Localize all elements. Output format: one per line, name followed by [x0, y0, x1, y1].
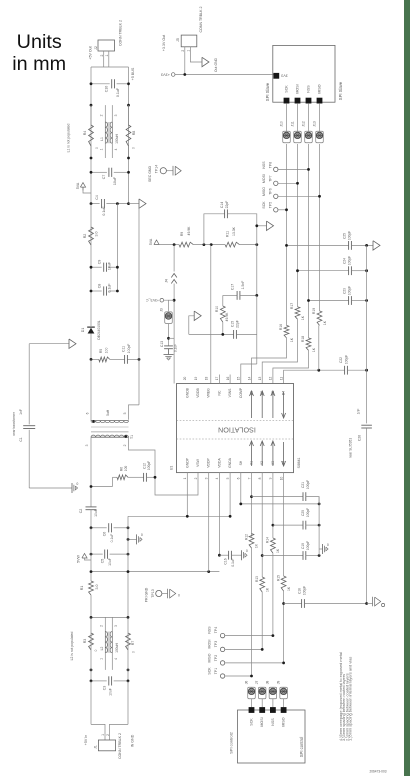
resistor R8 [128, 105, 130, 125]
svg-text:100pF: 100pF [127, 344, 131, 354]
resistor R14 1K on A3 column [271, 538, 276, 553]
svg-text:COMP: COMP [239, 387, 243, 398]
svg-text:NSS: NSS [208, 626, 212, 634]
svg-text:3: 3 [205, 477, 209, 479]
svg-text:GNDB: GNDB [185, 387, 189, 398]
svg-text:C2: C2 [79, 509, 83, 514]
svg-text:TP8: TP8 [268, 162, 272, 168]
svg-text:0.1uF: 0.1uF [116, 87, 120, 97]
svg-text:6: 6 [237, 477, 241, 479]
J5 ground arrow Out GND [190, 57, 202, 63]
svg-text:3: 3 [114, 625, 118, 627]
ground bars for C1 [71, 483, 73, 493]
svg-text:near transformer: near transformer [12, 411, 16, 435]
svg-text:SEC GND: SEC GND [148, 166, 152, 182]
svg-text:MOSI: MOSI [296, 84, 300, 93]
svg-text:SPI control2: SPI control2 [229, 731, 234, 754]
svg-text:R4: R4 [83, 131, 87, 136]
op-amp U1 SI8641 isolation IC box [177, 384, 294, 473]
svg-text:SCK: SCK [285, 85, 289, 93]
svg-text:12: 12 [269, 377, 273, 381]
svg-text:100: 100 [104, 348, 108, 354]
inductor L2 windings [104, 617, 106, 631]
svg-text:1: 1 [105, 54, 109, 56]
inductor L2 section top row [91, 616, 128, 618]
svg-text:0: 0 [94, 649, 98, 651]
svg-text:SI8641: SI8641 [297, 458, 301, 469]
svg-text:C24: C24 [343, 258, 347, 264]
SPI control box [238, 710, 306, 763]
connector J1 CONN TRBLK 2 bottom [90, 681, 92, 725]
svg-text:1K: 1K [301, 315, 305, 320]
capacitor C23 100pF row [309, 300, 349, 302]
jumper J4 on 5VA rail [173, 245, 175, 272]
svg-text:CONN TRBLK 2: CONN TRBLK 2 [119, 20, 123, 46]
rail 256.8 down to COMP pin [256, 295, 258, 364]
svg-text:J2: J2 [94, 46, 98, 50]
svg-text:R16: R16 [279, 324, 283, 330]
svg-text:100pF: 100pF [306, 541, 310, 550]
svg-text:MOSI: MOSI [260, 717, 264, 726]
SPI control pads SCK MOSI NSS MISO [249, 707, 255, 713]
svg-text:2: 2 [100, 54, 104, 56]
svg-text:L1: L1 [100, 137, 104, 141]
svg-text:C20: C20 [301, 510, 305, 516]
svg-text:R11: R11 [226, 231, 230, 237]
resistor R19 1K [317, 311, 322, 326]
svg-text:0: 0 [246, 549, 248, 553]
svg-text:VDDB: VDDB [196, 388, 200, 398]
svg-text:C9: C9 [98, 260, 102, 265]
svg-text:11: 11 [279, 377, 283, 381]
svg-text:+3V3: +3V3 [161, 72, 170, 76]
svg-text:16: 16 [226, 377, 230, 381]
svg-text:0: 0 [327, 543, 329, 547]
svg-text:C16: C16 [223, 558, 227, 564]
svg-text:C17: C17 [230, 284, 234, 290]
svg-text:SCK: SCK [208, 667, 212, 675]
svg-text:J3: J3 [160, 308, 164, 312]
svg-text:R5: R5 [99, 349, 103, 353]
net label +3V3_C with jumper J3 and capacitor C13 [160, 298, 164, 302]
svg-text:1K: 1K [312, 347, 316, 352]
svg-text:ISOLATION: ISOLATION [218, 425, 256, 434]
rail left x91 mid section [90, 204, 92, 326]
svg-text:R15: R15 [276, 575, 280, 581]
resistor R17 1K [295, 307, 300, 319]
svg-text:15: 15 [237, 377, 241, 381]
svg-text:+5V In: +5V In [84, 735, 88, 746]
svg-text:2: 2 [194, 477, 198, 479]
primary ground row y571.6 [91, 571, 219, 573]
svg-text:VDDA: VDDA [217, 458, 221, 468]
capacitor C9 10uF row [91, 266, 102, 268]
connector J5 CONN TRBLK 2 [181, 35, 197, 47]
svg-text:5VA: 5VA [76, 182, 80, 189]
inductor L1 section top row [90, 104, 93, 107]
rail x139 from C4-row arrow down to T1 pin5 [138, 204, 140, 405]
svg-text:0: 0 [141, 533, 143, 537]
svg-text:1: 1 [100, 148, 104, 150]
svg-text:C3: C3 [102, 686, 106, 691]
svg-text:4: 4 [215, 477, 219, 479]
wire T1 pin2 route to VSW [129, 437, 199, 495]
svg-text:0: 0 [178, 594, 180, 598]
svg-text:R19: R19 [312, 308, 316, 314]
svg-text:0: 0 [132, 147, 136, 149]
svg-text:in mm: in mm [12, 53, 66, 75]
svg-text:4: 4 [114, 148, 118, 150]
svg-text:0.1uF: 0.1uF [102, 206, 106, 216]
svg-text:2: 2 [123, 444, 127, 446]
svg-text:C8: C8 [98, 284, 102, 289]
capacitor C25 100pF row with ground arrow [287, 244, 349, 246]
svg-text:C22: C22 [339, 357, 343, 363]
svg-text:C13: C13 [160, 341, 164, 347]
svg-text:100pF: 100pF [306, 480, 310, 489]
svg-text:9: 9 [269, 477, 273, 479]
wire GNDP ground row [186, 473, 188, 517]
svg-text:100pF: 100pF [348, 256, 352, 265]
capacitor C7 10uF row [91, 171, 107, 173]
svg-text:J4: J4 [165, 279, 169, 283]
svg-text:10uF: 10uF [94, 509, 98, 517]
svg-text:13.3K: 13.3K [232, 226, 236, 236]
svg-text:DB2440100L: DB2440100L [97, 320, 101, 339]
svg-text:3.0: 3.0 [95, 232, 99, 237]
svg-text:1: 1 [100, 658, 104, 660]
ground branch for C6 row [128, 538, 137, 540]
capacitor C17 1.5nF row [223, 294, 237, 296]
svg-text:3: 3 [114, 114, 118, 116]
capacitor C10 0.1uF row [91, 83, 110, 85]
svg-text:3: 3 [85, 444, 89, 446]
svg-text:+5V Out: +5V Out [88, 46, 92, 59]
svg-text:VDDP: VDDP [207, 458, 211, 468]
svg-text:TP14: TP14 [155, 165, 159, 173]
svg-text:3.0: 3.0 [95, 585, 99, 590]
3V3 pad on SPI slave [273, 73, 279, 79]
svg-text:3V3: 3V3 [281, 74, 287, 78]
svg-text:R8: R8 [132, 131, 136, 136]
svg-text:J1: J1 [94, 745, 98, 749]
rail right x128.5 top section [128, 67, 130, 204]
svg-text:near SL35261: near SL35261 [349, 438, 353, 458]
svg-text:18: 18 [205, 377, 209, 381]
capacitor C15 22pF row [189, 333, 234, 335]
svg-text:19: 19 [194, 377, 198, 381]
svg-text:100: 100 [124, 466, 128, 472]
svg-text:CONN TRBLK 2: CONN TRBLK 2 [199, 6, 203, 32]
ground stub and triangle on rail 256.8 [256, 245, 258, 296]
svg-text:1K: 1K [323, 320, 327, 325]
svg-text:7: 7 [247, 477, 251, 479]
svg-text:C26: C26 [357, 435, 361, 441]
svg-text:R18: R18 [301, 336, 305, 342]
svg-text:22pF: 22pF [236, 320, 240, 328]
svg-text:C1: C1 [19, 437, 23, 441]
transformer T1 [90, 359, 92, 420]
svg-text:22pF: 22pF [225, 201, 229, 209]
svg-text:0: 0 [76, 482, 78, 486]
svg-text:1: 1 [101, 734, 105, 736]
svg-text:L1 is not populated: L1 is not populated [67, 124, 71, 153]
svg-text:20: 20 [183, 377, 187, 381]
svg-text:1nF: 1nF [357, 409, 361, 415]
svg-text:C11: C11 [122, 346, 126, 352]
svg-text:C19: C19 [301, 543, 305, 549]
svg-text:1: 1 [186, 50, 190, 52]
net arrow left of C15 row [189, 316, 194, 335]
svg-text:VSW: VSW [196, 458, 200, 467]
svg-text:NC: NC [217, 390, 221, 395]
svg-text:49.9K: 49.9K [187, 226, 191, 236]
svg-text:100pF: 100pF [306, 508, 310, 517]
U1 pin NC and V3NS stubs [218, 375, 220, 384]
connector J2 CONN TRBLK 2 [98, 40, 115, 51]
svg-text:100pF: 100pF [348, 231, 352, 240]
svg-text:R7: R7 [131, 641, 135, 646]
snubber row R5 100 and C11 100pF [91, 358, 99, 360]
rail x117.4 down to C8 [116, 204, 118, 291]
resistor R4 [90, 105, 92, 125]
svg-text:NSS: NSS [271, 718, 275, 726]
L2 bottom row [90, 669, 93, 672]
capacitor C1 1nF near transformer branch [29, 343, 69, 345]
svg-text:100pF: 100pF [344, 355, 348, 364]
svg-text:L2 is not populated: L2 is not populated [70, 632, 74, 661]
svg-text:4: 4 [114, 658, 118, 660]
U1 channel direction arrows bottom [251, 442, 253, 466]
svg-text:R12: R12 [245, 534, 249, 540]
svg-text:C6: C6 [103, 532, 107, 537]
svg-text:C5: C5 [100, 559, 104, 564]
svg-text:5VW: 5VW [76, 555, 80, 563]
svg-text:10uF: 10uF [109, 688, 113, 696]
svg-text:MOSI: MOSI [208, 640, 212, 649]
svg-text:0: 0 [132, 651, 136, 653]
svg-text:8: 8 [258, 477, 262, 479]
SPI Slave box [273, 45, 335, 102]
svg-text:SCK: SCK [262, 201, 266, 209]
J2 pin stubs and numbers [103, 51, 105, 67]
svg-text:VREG: VREG [207, 388, 211, 398]
U1 channel direction arrows top [251, 392, 253, 418]
jumpers J6-J9 [248, 687, 256, 699]
svg-text:0.1uF: 0.1uF [110, 534, 114, 543]
svg-text:J8: J8 [266, 681, 270, 685]
svg-text:R3: R3 [83, 639, 87, 644]
svg-text:C7: C7 [102, 175, 106, 180]
svg-text:C14: C14 [220, 202, 224, 208]
svg-text:C25: C25 [343, 233, 347, 239]
svg-text:J11: J11 [290, 121, 294, 126]
svg-text:MISO: MISO [282, 717, 286, 726]
svg-text:J7: J7 [255, 681, 259, 685]
jumpers J10-J13 [286, 103, 288, 131]
svg-text:0: 0 [95, 147, 99, 149]
resistor R11 13.3K [225, 242, 239, 247]
svg-text:TP4: TP4 [214, 627, 218, 633]
svg-text:NSS: NSS [307, 85, 311, 93]
svg-text:6: 6 [86, 412, 90, 414]
wire SH row to right rail [241, 473, 319, 504]
svg-text:100pF: 100pF [348, 286, 352, 295]
svg-text:SCK: SCK [250, 718, 254, 726]
capacitor C5 10uF row [91, 553, 103, 555]
svg-text:2: 2 [106, 734, 110, 736]
right ground rail x366.6 with capacitor C26 1nF [366, 245, 368, 423]
capacitor C8 0.1uF row [91, 290, 102, 292]
svg-text:C18: C18 [297, 588, 301, 594]
SPI columns SCK MOSI NSS MISO verticals [286, 144, 288, 325]
svg-text:+3.3V Out: +3.3V Out [162, 35, 166, 51]
svg-text:+5 BUS: +5 BUS [131, 67, 135, 80]
capacitor C18 100pF row [282, 602, 285, 605]
svg-text:1nF: 1nF [19, 409, 23, 415]
svg-text:GNDP: GNDP [185, 457, 189, 468]
svg-text:V3NS: V3NS [228, 388, 232, 398]
ground right of C18 row [367, 603, 373, 605]
svg-text:2: 2 [100, 625, 104, 627]
svg-text:TP3: TP3 [214, 641, 218, 647]
svg-text:C10: C10 [105, 86, 109, 93]
capacitor C3 10uF row [91, 680, 107, 682]
resistor R15 1K on A4 column [283, 473, 285, 576]
capacitor C20 100pF row from A3 [272, 473, 274, 538]
resistor R7 [126, 633, 131, 650]
svg-text:TP7: TP7 [268, 175, 272, 181]
svg-text:C4: C4 [95, 195, 99, 200]
wire VDDA down to C16 [218, 473, 220, 556]
svg-text:2: 2 [100, 114, 104, 116]
capacitor C19 100pF row from A2 [261, 473, 263, 577]
svg-text:TP1: TP1 [214, 668, 218, 674]
svg-text:PRI GND: PRI GND [145, 587, 149, 602]
svg-text:MISO: MISO [262, 187, 266, 196]
svg-text:206473-003: 206473-003 [369, 770, 386, 774]
resistor R9 49.9K [179, 242, 193, 247]
svg-text:5: 5 [226, 477, 230, 479]
resistor R12 1K on A1 column [249, 534, 254, 549]
svg-text:100uH: 100uH [115, 643, 119, 653]
svg-text:MOSI: MOSI [262, 174, 266, 183]
svg-text:C21: C21 [301, 482, 305, 488]
svg-text:+3V3_C: +3V3_C [146, 298, 159, 302]
svg-text:2: 2 [181, 50, 185, 52]
svg-text:10uF: 10uF [108, 261, 112, 270]
svg-text:J6: J6 [244, 681, 248, 685]
green page border (right edge) [404, 0, 410, 776]
svg-text:100uH: 100uH [115, 134, 119, 144]
resistor R2 3.0 [89, 227, 94, 245]
svg-text:1: 1 [183, 477, 187, 479]
net arrow right of C4 row [129, 203, 140, 205]
resistor R16 1K [284, 325, 289, 338]
svg-text:TP5: TP5 [268, 202, 272, 208]
svg-text:0.1uF: 0.1uF [174, 344, 178, 352]
svg-text:J5: J5 [176, 38, 180, 42]
svg-text:Units: Units [17, 31, 62, 53]
+3V3 net label and wire to SPI slave [171, 73, 175, 77]
svg-text:5: 5 [123, 412, 127, 414]
svg-text:0.1uF: 0.1uF [108, 283, 112, 293]
diode D1 DB2440100L [88, 328, 95, 334]
svg-text:SPI Slave: SPI Slave [265, 82, 270, 101]
svg-text:R1: R1 [80, 586, 84, 591]
svg-text:MISO: MISO [318, 84, 322, 93]
svg-text:L2: L2 [100, 647, 104, 651]
wire VDDP down to primary ground row [208, 473, 210, 572]
svg-text:C15: C15 [231, 321, 235, 327]
svg-text:4.)5mm creepage (exposed metal: 4.)5mm creepage (exposed metal to expose… [338, 652, 343, 741]
svg-text:CONN TRBLK 2: CONN TRBLK 2 [118, 733, 122, 759]
SPI slave pads SCK MOSI NSS MISO [284, 98, 290, 104]
svg-text:TP2: TP2 [214, 655, 218, 661]
rail down from R9 row to U1 VREG pin [210, 245, 212, 384]
svg-text:1.5nF: 1.5nF [241, 281, 245, 290]
power arrow 5VW [82, 554, 87, 559]
rail left between C2 and R1 [90, 528, 92, 581]
svg-text:GNDA: GNDA [228, 457, 232, 468]
svg-text:R10: R10 [215, 306, 219, 312]
svg-text:C23: C23 [343, 288, 347, 294]
svg-text:10uF: 10uF [113, 176, 117, 185]
svg-text:10: 10 [279, 477, 283, 481]
svg-text:R9: R9 [180, 232, 184, 236]
svg-text:D1: D1 [81, 328, 85, 333]
svg-text:R13: R13 [255, 576, 259, 582]
svg-text:TP13: TP13 [151, 589, 155, 597]
wire +5 bus top [91, 66, 129, 68]
svg-text:J13: J13 [312, 121, 316, 127]
svg-text:0.1uF: 0.1uF [231, 558, 235, 566]
svg-text:49.9K: 49.9K [225, 312, 229, 322]
capacitor C6 0.1uF row [91, 527, 107, 529]
svg-text:100pF: 100pF [303, 586, 307, 595]
svg-text:J12: J12 [301, 121, 305, 127]
right rail x319.1 with ground [318, 497, 320, 556]
svg-text:100pF: 100pF [147, 461, 151, 470]
svg-text:IN GND: IN GND [131, 734, 135, 747]
svg-text:13: 13 [258, 377, 262, 381]
J5 pin stubs [184, 47, 186, 75]
svg-text:C12: C12 [143, 463, 147, 469]
capacitor C2 10uF in left rail [86, 506, 97, 508]
svg-text:SPI control: SPI control [299, 737, 304, 758]
capacitor C14 22pF feedback row [204, 214, 225, 245]
svg-text:R2: R2 [83, 234, 87, 239]
svg-text:10uF: 10uF [108, 558, 112, 566]
svg-text:1K: 1K [290, 337, 294, 342]
svg-text:5VA: 5VA [149, 238, 153, 245]
power arrow 5VA left rail [83, 191, 91, 194]
resistor R10 49.9K vertical [222, 295, 224, 306]
resistor R3 [89, 633, 94, 650]
svg-text:J10: J10 [279, 121, 283, 127]
capacitor C4 0.1uF row [91, 203, 100, 205]
svg-text:SH: SH [239, 460, 243, 465]
svg-text:MISO: MISO [208, 653, 212, 662]
power arrow 5VA mid [154, 240, 159, 245]
svg-text:R14: R14 [266, 537, 270, 543]
capacitor C21 100pF row from A1 [251, 473, 253, 537]
svg-text:J9: J9 [276, 681, 280, 685]
resistor R1 3.0 [89, 581, 94, 595]
svg-text:Out GND: Out GND [214, 57, 218, 71]
capacitor C22 100pF row from B4 [284, 370, 345, 383]
svg-text:NSS: NSS [262, 161, 266, 169]
